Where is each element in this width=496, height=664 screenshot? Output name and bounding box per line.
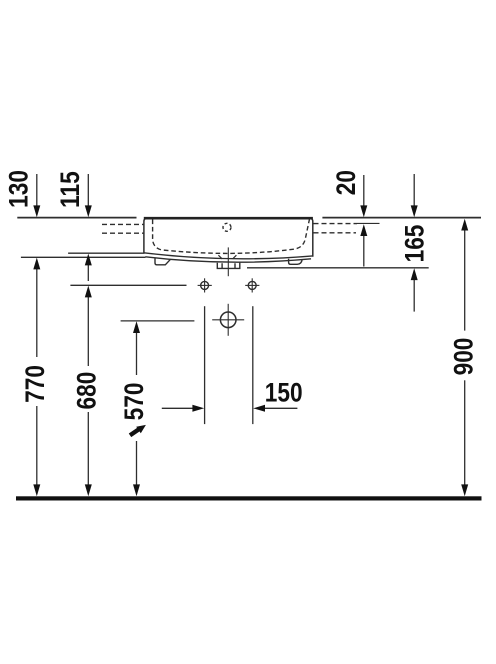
dim 130 extension above [36, 174, 38, 206]
dim 680 line [87, 297, 89, 367]
svg-text:680: 680 [71, 372, 101, 410]
sink bottom edge upper curve [144, 253, 313, 259]
arrowhead down 900 floor [461, 484, 468, 496]
right foot [289, 259, 303, 265]
reference line y253 (115 bottom) [68, 252, 144, 254]
drain centerline [227, 247, 229, 276]
svg-text:770: 770 [20, 365, 50, 403]
svg-text:115: 115 [55, 171, 85, 208]
arrowhead down 770 floor [33, 484, 40, 496]
dim 115 extension above [87, 174, 89, 206]
tap hole (dashed circle) [223, 223, 231, 231]
adjustability arrow (slanted) [130, 425, 146, 435]
arrowhead down 115 [85, 205, 92, 217]
dim 150 extension right [252, 306, 254, 424]
dim 20 extension above [363, 175, 365, 206]
svg-text:900: 900 [449, 338, 479, 376]
reference line y268 (165 bottom) [247, 267, 429, 269]
arrowhead right 150 left [192, 405, 204, 412]
arrowhead up 770 [33, 258, 40, 270]
arrowhead down 130 [33, 205, 40, 217]
drain hole circle [220, 312, 236, 328]
arrowhead down 165 [411, 205, 418, 217]
arrowhead down 20 [360, 205, 367, 217]
dim 570 line [136, 333, 138, 376]
svg-text:165: 165 [400, 224, 430, 262]
arrowhead up 115 bottom [85, 254, 92, 266]
wall line left segment (900 rim level) [17, 217, 136, 219]
drain funnel tick left [218, 255, 222, 259]
fixing hole left [201, 281, 209, 289]
sink bottom edge lower curve [145, 257, 311, 262]
dim 165 extension above [413, 174, 415, 206]
arrowhead up 680 [85, 286, 92, 298]
left foot [155, 259, 171, 265]
dim 150 extension left [204, 306, 206, 424]
arrowhead up 20 bottom [360, 224, 367, 236]
arrowhead down 680 floor [85, 484, 92, 496]
dim 115 lower tail [87, 265, 89, 282]
hidden ledge dashed lines left of sink [102, 223, 144, 225]
fixing hole right [248, 281, 256, 289]
dim 150 tails [162, 407, 193, 409]
svg-text:130: 130 [3, 170, 33, 208]
sink top rim (thick edge) [144, 217, 313, 220]
dim 770 line [36, 269, 38, 358]
hidden ledge dashed lines right of sink [314, 223, 358, 225]
sink outline (basin body) [144, 218, 313, 257]
svg-text:570: 570 [119, 382, 149, 420]
drain flange [217, 263, 240, 269]
arrowhead up 165 bottom [411, 268, 418, 280]
arrowhead down 570 floor [133, 484, 140, 496]
dim 900 line [464, 230, 466, 331]
svg-text:20: 20 [331, 170, 361, 195]
basin inner outline (hidden, dashed) [153, 220, 310, 254]
wall line right segment [322, 217, 481, 219]
arrowhead up 570 [133, 321, 140, 333]
dim 165 lower tail [413, 279, 415, 312]
arrowhead up 900 [461, 219, 468, 231]
drain funnel tick right [233, 255, 237, 259]
dim 20 lower tail [363, 235, 365, 267]
floor line [16, 496, 482, 500]
arrowhead left 150 right [253, 405, 265, 412]
reference line y257 (130 bottom / 770 top) [21, 256, 146, 258]
reference line y321 (570 top, drain level) [121, 320, 195, 322]
reference line y285 (680 top, fixing holes level) [70, 284, 186, 286]
svg-text:150: 150 [265, 378, 303, 408]
